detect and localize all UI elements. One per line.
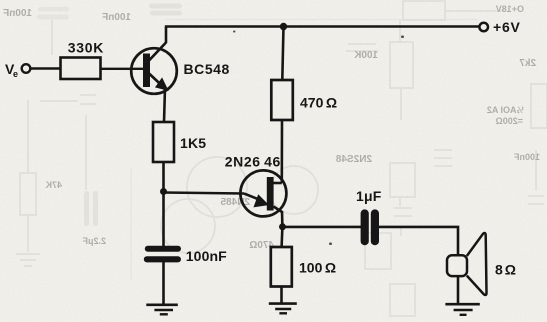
svg-text:=200Ω: =200Ω <box>496 116 524 126</box>
speaker LS1 8 ohm <box>447 233 516 295</box>
transistor Q1 BC548 <box>131 43 230 94</box>
svg-text:100nF: 100nF <box>102 12 131 23</box>
svg-text:100nF: 100nF <box>513 152 540 162</box>
svg-text:½AOI A2: ½AOI A2 <box>487 105 524 115</box>
wire node B to R4 <box>280 227 283 247</box>
svg-text:470Ω: 470Ω <box>300 95 337 111</box>
ground under speaker <box>445 304 479 315</box>
wire node B to C2 <box>283 226 362 229</box>
svg-text:2k7: 2k7 <box>519 58 536 69</box>
wire Q2 base1 to node B <box>281 211 284 228</box>
resistor 100 ohm <box>271 247 336 287</box>
svg-text:2N2646: 2N2646 <box>225 153 281 169</box>
svg-text:8Ω: 8Ω <box>495 262 516 278</box>
svg-text:100Ω: 100Ω <box>299 260 336 276</box>
ground under R4 <box>269 304 297 314</box>
svg-text:100nF: 100nF <box>3 8 32 19</box>
ground under C1 <box>146 305 178 315</box>
svg-text:BC548: BC548 <box>184 61 230 77</box>
node junction rail to R3 <box>280 23 287 30</box>
wire R3 to Q2 base2 <box>280 120 283 183</box>
svg-text:100nF: 100nF <box>186 248 227 264</box>
node B junction <box>279 223 286 230</box>
wire R4 to ground <box>280 287 283 305</box>
node A junction <box>160 188 167 195</box>
background specks (decorative) <box>233 31 404 246</box>
capacitor C1 100nF <box>144 246 227 264</box>
wire R2 to node A <box>162 162 165 192</box>
wire R1 to Q1 base <box>101 68 144 70</box>
resistor 470 ohm <box>271 80 337 120</box>
node +6V supply terminal <box>479 19 520 35</box>
resistor 1K5 <box>153 122 206 162</box>
wire rail junction to R3 <box>282 27 283 81</box>
svg-text:100K: 100K <box>353 50 378 61</box>
wire C2 to speaker <box>379 227 458 256</box>
wire node A to C1 <box>162 192 165 248</box>
wire Ve to R1 <box>31 67 62 69</box>
svg-text:2N2S48: 2N2S48 <box>335 154 372 165</box>
svg-text:2.2μF: 2.2μF <box>82 236 106 246</box>
wire speaker to ground <box>457 276 460 304</box>
svg-text:+6V: +6V <box>493 19 521 35</box>
svg-text:e: e <box>13 69 18 79</box>
svg-text:1μF: 1μF <box>356 188 382 204</box>
svg-text:47K: 47K <box>45 180 62 190</box>
transistor Q2 2N2646 <box>225 153 287 216</box>
wire node A to Q2 emitter <box>164 193 245 194</box>
capacitor C2 1uF <box>356 188 382 245</box>
wire C1 to ground <box>162 262 165 305</box>
wire Q1 collector to +6V rail <box>165 27 168 43</box>
svg-text:O+18V: O+18V <box>496 4 524 14</box>
wire Q1 emitter to R2 <box>164 88 165 122</box>
wire +6V rail <box>165 25 480 28</box>
svg-text:330K: 330K <box>68 39 104 55</box>
node Ve input terminal <box>5 61 30 79</box>
svg-text:1K5: 1K5 <box>180 135 206 151</box>
resistor 330K <box>61 39 105 79</box>
